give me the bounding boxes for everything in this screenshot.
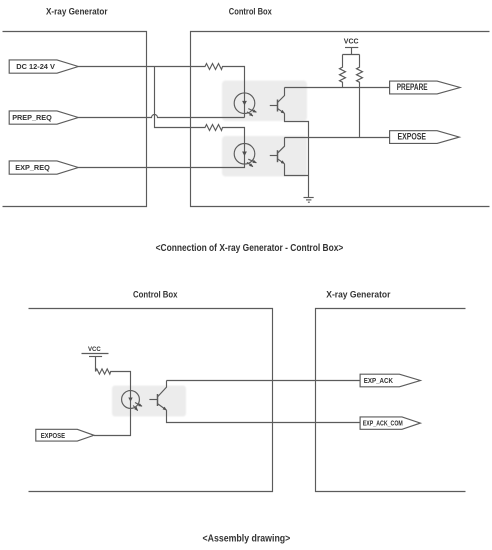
svg-text:DC 12-24 V: DC 12-24 V [16, 62, 55, 71]
svg-text:<Connection of X-ray Generator: <Connection of X-ray Generator - Control… [156, 243, 344, 254]
svg-text:EXP_ACK: EXP_ACK [364, 378, 393, 385]
svg-text:<Assembly drawing>: <Assembly drawing> [203, 533, 291, 544]
svg-text:X-ray Generator: X-ray Generator [46, 5, 108, 16]
svg-text:EXPOSE: EXPOSE [41, 431, 65, 440]
svg-text:Control Box: Control Box [229, 5, 273, 16]
svg-text:Control Box: Control Box [133, 288, 178, 299]
svg-text:VCC: VCC [344, 36, 359, 45]
svg-text:EXP_ACK_COM: EXP_ACK_COM [363, 420, 403, 427]
svg-text:X-ray Generator: X-ray Generator [326, 288, 390, 299]
svg-text:VCC: VCC [88, 346, 101, 353]
svg-text:PREP_REQ: PREP_REQ [12, 113, 52, 122]
svg-text:EXP_REQ: EXP_REQ [15, 163, 50, 172]
svg-text:PREPARE: PREPARE [397, 82, 428, 92]
svg-text:EXPOSE: EXPOSE [398, 131, 427, 141]
